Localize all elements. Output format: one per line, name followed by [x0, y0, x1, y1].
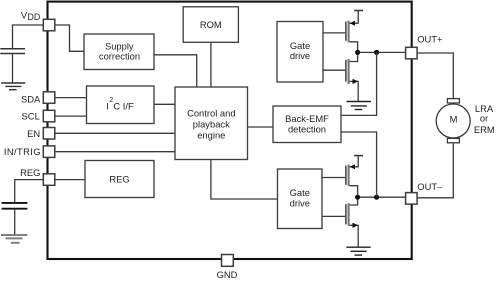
- wire C1 to ground: [12, 54, 14, 83]
- svg-text:detection: detection: [288, 124, 326, 135]
- svg-text:REG: REG: [109, 173, 129, 184]
- wire motor to OUT- pin: [417, 143, 453, 198]
- pin OUT-: [406, 193, 418, 205]
- svg-text:Back-EMF: Back-EMF: [285, 113, 329, 124]
- wire SCL pin to I2C block: [55, 115, 87, 117]
- svg-text:playback: playback: [193, 118, 230, 129]
- label VDD: [21, 10, 40, 23]
- ground (bottom half bridge): [346, 247, 370, 255]
- capacitor C2 (REG) top plate: [2, 202, 28, 204]
- pin REG: [43, 174, 55, 186]
- svg-text:drive: drive: [290, 198, 310, 209]
- pin SDA: [43, 92, 55, 104]
- wire REG pin to REG block: [55, 179, 85, 181]
- svg-text:C I/F: C I/F: [113, 100, 134, 111]
- pin VDD: [43, 19, 55, 31]
- block: I2C I/F: [87, 86, 155, 124]
- wire control engine to bottom gate drive: [211, 160, 278, 200]
- svg-text:or: or: [480, 113, 488, 124]
- svg-text:Gate: Gate: [290, 40, 310, 51]
- ground (C1): [1, 83, 25, 90]
- block: Gate drive (top): [277, 22, 323, 83]
- wire OUT+ pin to motor: [417, 53, 453, 99]
- node junction dot (OUT+ to back-EMF tap): [374, 50, 379, 55]
- svg-text:Gate: Gate: [290, 187, 310, 198]
- wire SDA pin to I2C block: [55, 97, 87, 99]
- wire OUT- node to pin: [358, 196, 406, 198]
- block: Gate drive (bottom): [278, 169, 323, 229]
- transistor Q1 PMOS (high side, OUT+): [346, 11, 363, 53]
- ground (top half bridge): [347, 102, 371, 110]
- block: Back-EMF detection: [273, 106, 341, 143]
- svg-text:engine: engine: [197, 129, 225, 140]
- wire VDD pin to left decoupling capacitor: [13, 25, 44, 48]
- svg-text:SDA: SDA: [21, 94, 41, 105]
- svg-text:Control and: Control and: [187, 108, 235, 119]
- svg-text:GND: GND: [217, 269, 238, 280]
- transistor Q2 NMOS (low side, OUT+): [346, 52, 358, 101]
- label LRA or ERM: [474, 103, 495, 135]
- pin EN: [43, 128, 55, 140]
- block: ROM: [183, 7, 238, 43]
- pin SCL: [43, 110, 55, 122]
- wire I2C block to control engine: [154, 103, 175, 105]
- wire OUT+ node to pin: [358, 51, 406, 53]
- block: Control and playback engine U1: [175, 87, 248, 160]
- transistor Q4 NMOS (low side, OUT-): [346, 197, 358, 247]
- wire C2 to ground: [14, 209, 16, 234]
- wire EN pin to control engine: [55, 132, 175, 134]
- wire supply correction to control engine: [154, 55, 197, 87]
- pin GND: [222, 255, 234, 267]
- wire OUT+ tap to back-EMF detection: [341, 52, 377, 115]
- wire gate drive bottom to NMOS gate: [322, 215, 345, 217]
- wire REG pin to external capacitor: [15, 180, 43, 202]
- capacitor C1 (VDD bypass) top plate: [0, 48, 25, 50]
- svg-text:IN/TRIG: IN/TRIG: [4, 146, 41, 157]
- ground (C2, gray style): [1, 235, 27, 243]
- node junction dot (Q1/Q2 drains): [355, 50, 360, 55]
- capacitor C2 bottom plate: [2, 208, 28, 210]
- block: Supply correction: [84, 34, 154, 70]
- svg-text:ROM: ROM: [200, 19, 222, 30]
- svg-text:ERM: ERM: [474, 124, 495, 135]
- pin OUT+: [406, 47, 418, 59]
- block: REG regulator: [85, 161, 154, 198]
- wire gate drive top to PMOS gate: [323, 32, 345, 34]
- node junction dot (OUT- to back-EMF tap): [374, 195, 379, 200]
- wire IN/TRIG pin to control engine: [55, 151, 175, 153]
- motor M (LRA or ERM): [436, 99, 470, 143]
- wire ROM to control engine: [210, 42, 212, 87]
- svg-text:OUT–: OUT–: [417, 181, 443, 192]
- svg-text:drive: drive: [290, 50, 310, 61]
- pin IN/TRIG: [43, 146, 55, 158]
- svg-text:REG: REG: [20, 167, 40, 178]
- svg-text:M: M: [450, 113, 458, 124]
- svg-text:EN: EN: [27, 128, 40, 139]
- transistor Q3 PMOS (high side, OUT-): [346, 156, 363, 198]
- wire gate drive top to NMOS gate: [323, 69, 345, 71]
- svg-text:DD: DD: [28, 12, 41, 22]
- wire VDD pin to supply correction: [55, 25, 84, 51]
- wire control engine to back-EMF detection: [248, 126, 274, 128]
- node junction dot (Q3/Q4 drains): [355, 195, 360, 200]
- capacitor C1 bottom plate: [0, 53, 25, 55]
- svg-text:OUT+: OUT+: [417, 34, 443, 45]
- svg-text:SCL: SCL: [22, 111, 40, 122]
- wire gate drive bottom to PMOS gate: [322, 177, 345, 179]
- wire OUT- tap to back-EMF detection: [341, 132, 377, 197]
- chip outline (device boundary): [48, 2, 412, 259]
- svg-text:correction: correction: [99, 51, 140, 62]
